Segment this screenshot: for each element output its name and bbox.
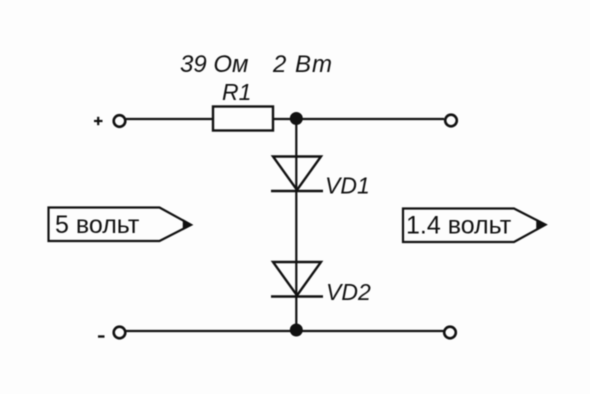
terminal output top right (open circle): [445, 115, 457, 127]
node label 5 вольт (flag): [49, 208, 192, 242]
wire + terminal to resistor: [126, 118, 213, 120]
wire vertical from node A through diodes to node B: [295, 119, 297, 331]
svg-text:VD1: VD1: [325, 173, 370, 199]
diode VD2: [271, 262, 323, 297]
svg-text:39 Ом: 39 Ом: [180, 51, 248, 78]
svg-text:1.4 вольт: 1.4 вольт: [406, 212, 512, 240]
terminal output bottom right (open circle): [444, 327, 456, 339]
polarity label -: [98, 335, 105, 337]
wire bottom - terminal to right terminal: [126, 330, 444, 332]
node label 1.4 вольт (flag): [403, 209, 546, 243]
terminal + (open circle, top left): [114, 115, 126, 127]
svg-text:R1: R1: [222, 79, 251, 105]
resistor R1: [213, 107, 273, 131]
diode VD1: [271, 157, 323, 192]
svg-text:2 Вт: 2 Вт: [272, 51, 333, 78]
terminal - (open circle, bottom left): [114, 327, 126, 339]
node B junction dot (bottom): [290, 324, 303, 337]
svg-text:5 вольт: 5 вольт: [55, 211, 140, 239]
polarity label +: [94, 117, 103, 125]
svg-text:VD2: VD2: [326, 279, 371, 305]
node A junction dot (top): [290, 112, 303, 125]
wire resistor to right terminal: [273, 118, 444, 120]
